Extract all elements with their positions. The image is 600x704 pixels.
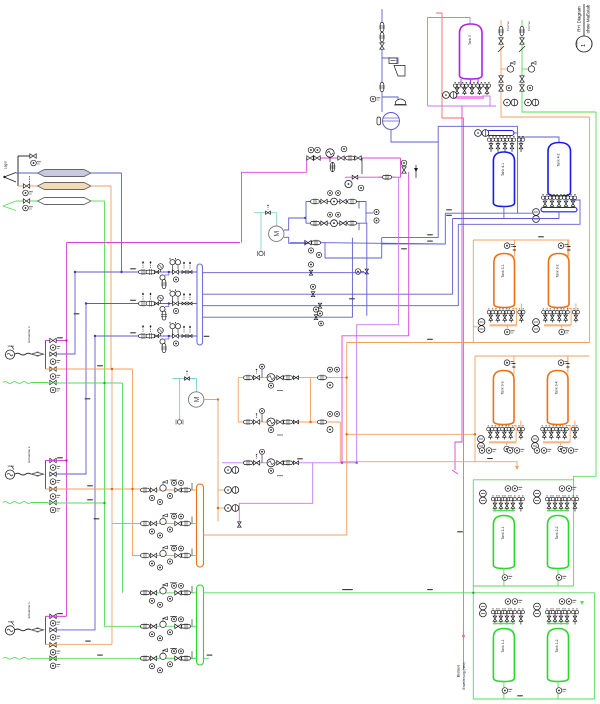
valve Entnahme 2 g — [50, 500, 56, 504]
instrument Tank 1-2 top2 — [566, 599, 576, 605]
wire orange header row1 — [140, 489, 197, 491]
valve group orange row1 — [244, 364, 299, 391]
valve manifold row1 cross — [173, 270, 179, 274]
wire blue under-tank run 3 — [458, 200, 580, 224]
wire green Entnahme 1 — [31, 657, 48, 659]
instrument grp2 b3b — [541, 448, 551, 454]
instrument out3b — [319, 321, 324, 326]
valve unit purple tank u2 — [461, 82, 468, 95]
wire orange M2 out — [204, 400, 218, 522]
instrument grp2 b2b — [514, 448, 524, 454]
wire green filter out — [91, 200, 105, 202]
node junction orange hdr — [217, 507, 219, 509]
svg-text:Tank 0: Tank 0 — [468, 35, 472, 45]
instrument blue FIC — [374, 218, 379, 223]
instrument Tank 1-2 bottom — [556, 688, 566, 694]
manifold bar Tank 3-2 — [544, 324, 571, 326]
wire green grp1 bottom — [473, 585, 573, 587]
wire orange cross link — [347, 342, 590, 344]
wire blue M1 out2 — [284, 237, 310, 243]
instrument grp2 b4 — [561, 448, 567, 454]
pump orange col P — [504, 99, 518, 106]
wire orange Tank 3-2 u5 feed — [575, 304, 577, 311]
valve unit blue tank2 u2 — [548, 194, 555, 209]
vessel Tank 1-2 — [548, 629, 569, 682]
pump Tank 1-2 — [534, 603, 541, 617]
svg-text:Tank 1-2: Tank 1-2 — [555, 639, 559, 652]
node junction manifold row3 — [168, 335, 170, 337]
valve unit Tank 1-1 u3 — [503, 609, 510, 625]
instrument out2 — [317, 311, 322, 316]
valve orange col ECO — [498, 27, 504, 36]
wire orange crow right — [310, 378, 312, 422]
wire orange Tank 3-2 side — [569, 309, 571, 326]
wire magenta stub ECO — [378, 176, 395, 178]
wire green riser x=104.5 lower — [105, 383, 141, 626]
wire Entnahme 1 pump squiggle — [15, 629, 31, 631]
wire cyan M1 drop — [276, 213, 278, 226]
wire magenta loop bottom — [345, 158, 401, 177]
instrument magenta TI1 — [308, 147, 314, 153]
wire magenta Entnahme 1 — [46, 615, 67, 617]
wire magenta E2 tap — [46, 460, 67, 462]
valve group purple row — [244, 449, 299, 476]
wire green Entnahme 1 squiggle — [3, 657, 31, 659]
wire orange grp1 pump stub — [473, 326, 477, 328]
wire magenta E1 tap — [46, 615, 67, 617]
wire orange E1 — [46, 643, 113, 645]
wire blue row B — [306, 222, 366, 224]
manifold bar Tank 2-2 — [547, 510, 569, 512]
manifold blue tank2 header — [541, 208, 577, 212]
wire orange from Lager — [18, 185, 38, 187]
valve unit Tank 3-1 u1 — [487, 309, 494, 323]
valve blue rowA ECO2 — [348, 199, 357, 205]
wire orange Tank 3-4 topdrop — [567, 356, 569, 373]
pump Tank 3-4 — [532, 436, 539, 450]
svg-text:Entnahme 2: Entnahme 2 — [27, 446, 31, 463]
wire orange col cv stub — [501, 68, 507, 70]
pump blue tank2 P2 — [533, 209, 540, 223]
pump purple row — [225, 467, 239, 474]
node junction orange E2b — [131, 488, 133, 490]
valve green V3 — [23, 199, 29, 203]
node junction M2 out — [217, 398, 219, 400]
valve out2 — [318, 303, 322, 308]
wire purple drop3 — [239, 463, 312, 522]
valve unit Tank 3-1 u4 — [508, 309, 515, 323]
instrument magenta PI5 — [358, 185, 364, 191]
valve unit Tank 2-1 u3 — [503, 496, 510, 512]
vessel Tank 3-3 — [493, 371, 514, 425]
wire green col cv stub — [522, 68, 528, 70]
instrument out3 — [313, 307, 318, 312]
valve group green header row1 — [141, 583, 193, 608]
svg-text:Entnahme 1: Entnahme 1 — [27, 602, 31, 619]
valve blue rowA V1 — [321, 199, 327, 203]
valve magenta V4 — [355, 156, 361, 160]
instrument blue rowA PI — [328, 191, 333, 196]
valve blue rowA ECO1 — [311, 199, 320, 205]
valve unit Tank 3-1 u5 — [518, 309, 525, 323]
wire orange Tank 3-1 bottomdrop — [506, 325, 508, 328]
pump Entnahme 2 feed — [5, 466, 14, 480]
wire blue tank2 feed — [487, 125, 518, 127]
wire blue filter out — [91, 172, 122, 174]
node Tank 3-2 nozzle marks — [567, 249, 570, 251]
station Entnahme 3 — [45, 341, 47, 370]
valve utility ECO2 — [379, 33, 385, 42]
pump Entnahme 1 feed — [5, 621, 14, 635]
filter F2 (orange line) — [38, 183, 92, 190]
wire blue riser E3 — [56, 272, 75, 354]
instrument grp2 b1 — [479, 448, 485, 454]
valve blue rowB V2 — [340, 221, 346, 225]
manifold bar Tank 3-3 — [489, 441, 516, 443]
node feed arrow blue — [3, 173, 16, 183]
pump M1 motor — [269, 226, 284, 241]
vessel Tank 3-4 — [547, 371, 568, 425]
valve magenta V2 — [314, 156, 320, 160]
wire blue corridor riser A — [382, 126, 439, 237]
wire blue riser x=517.6 — [517, 126, 519, 213]
wire orange riser x=111 — [110, 186, 112, 369]
wire blue to dome — [382, 97, 398, 99]
wire orange header row2 — [140, 523, 197, 525]
valve group green header row3 — [141, 648, 193, 673]
instrument Tank 3-2 bottom — [559, 329, 569, 335]
wire cyan M2 top — [173, 378, 197, 380]
instrument Tank 2-1 top2 — [512, 486, 522, 492]
wire blue riser E1 — [56, 336, 95, 630]
valve Entnahme 1 o — [50, 643, 56, 647]
pump manifold row1 HX — [158, 264, 164, 270]
instrument Tank 2-2 bottom — [556, 575, 566, 581]
valve unit blue tank1 u2 — [494, 136, 501, 152]
valve Entnahme 2 o — [50, 487, 56, 491]
node junction orange b434 — [474, 433, 476, 435]
valve green col cross — [520, 85, 524, 91]
wire blue corridor riser B — [382, 213, 446, 244]
instrument Entnahme 1 m — [50, 621, 60, 627]
filter Entnahme 3 strainer — [32, 352, 44, 356]
wire orange header row3 — [140, 555, 197, 557]
valve unit Tank 1-2 u4 — [563, 609, 570, 625]
wire blue row B down — [365, 223, 368, 316]
valve group orange header row2 — [141, 514, 193, 539]
wire blue corridor riser D — [203, 224, 459, 305]
instrument Entnahme 2 o — [50, 494, 60, 500]
manifold blue header M1 — [197, 264, 203, 345]
instrument M1 return — [258, 251, 265, 256]
valve magenta V3 — [338, 156, 344, 160]
node red boundary dot — [462, 635, 465, 638]
wire green grp1 right — [573, 480, 575, 586]
pump purple P0 — [443, 92, 457, 99]
instrument Entnahme 2 m — [50, 465, 60, 471]
vessel Tank 2-2 — [548, 516, 569, 569]
valve group manifold row2 — [139, 290, 193, 321]
valve purple drop — [237, 522, 241, 527]
pump transfer P3b — [225, 505, 239, 512]
wire Entnahme 3 pump squiggle — [15, 353, 31, 355]
wire orange V riser x=346.7 — [346, 343, 348, 536]
node Tank 3-1 nozzle marks — [513, 249, 516, 251]
wire green Entnahme 2 — [31, 502, 48, 504]
wire green Entnahme 2 squiggle — [3, 502, 31, 504]
instrument grp2 b1b — [486, 448, 496, 454]
wire orange Tank 3-3 side — [514, 426, 516, 443]
instrument green PI3 — [23, 205, 33, 211]
node junction green E2 — [103, 502, 105, 504]
wire blue manifold row1 — [75, 271, 197, 273]
valve unit Tank 2-2 u4 — [563, 496, 570, 512]
node junction manifold row2 — [168, 302, 170, 304]
node junction blue M1 — [304, 242, 306, 244]
pump Tank 2-2 — [534, 490, 541, 504]
valve green col V — [520, 38, 524, 44]
wire orange crow1 — [238, 377, 347, 379]
valve unit Tank 1-2 u3 — [557, 609, 564, 625]
svg-text:Tank 4-1: Tank 4-1 — [501, 163, 505, 176]
svg-text:Stand: Stand — [591, 40, 594, 47]
manifold blue tank1 header — [487, 131, 514, 136]
wire orange grp2 left — [474, 356, 476, 462]
node junction orange y434 — [346, 433, 348, 435]
instrument Tank 3-4 LI — [558, 360, 568, 366]
instrument blue rowB PI — [328, 212, 333, 217]
svg-text:Tank 3-1: Tank 3-1 — [501, 264, 505, 277]
node feed arrow green — [3, 201, 16, 211]
control valve orange header r2 — [160, 514, 168, 525]
wire orange far-right riser — [589, 117, 591, 343]
wire black feed top — [18, 155, 30, 157]
instrument grp2 b3 — [534, 448, 540, 454]
svg-text:Erweiterung (neu): Erweiterung (neu) — [462, 663, 466, 690]
instrument grp2 b4b — [568, 448, 578, 454]
wire black feed drop — [17, 156, 19, 186]
pump Tank 3-3 — [478, 436, 485, 450]
valve unit Tank 2-1 u4 — [509, 496, 516, 512]
wire orange Tank 3-4 bottomdrop — [560, 442, 562, 445]
wire green Entnahme 3 — [31, 382, 48, 384]
wire orange Tank 3-3 topdrop — [513, 356, 515, 373]
wire green grp2 bottom — [473, 698, 594, 700]
instrument Tank 3-3 LI — [504, 360, 514, 366]
svg-text:Frischw.: Frischw. — [506, 21, 510, 32]
wire orange Tank 3-2 bottomdrop — [561, 325, 563, 328]
wire blue riser to manifold row1 — [121, 173, 123, 272]
wire orange Tank 3-1 u5 feed — [520, 304, 522, 311]
wire violet riser x=427.5 — [427, 18, 429, 107]
pump Tank 3-1 — [478, 319, 485, 333]
valve unit Tank 1-1 u4 — [509, 609, 516, 625]
wire violet under purple tank — [428, 105, 497, 107]
wire orange row2 ext — [340, 422, 517, 466]
valve unit blue tank2 u1 — [541, 194, 548, 209]
instrument Tank 2-2 top2 — [566, 486, 576, 492]
wire blue M1 out1 — [284, 218, 305, 230]
valve blue rowB V1 — [321, 221, 327, 225]
instrument Tank 1-1 bottom — [502, 688, 512, 694]
wire blue tank2 top stub — [518, 137, 559, 143]
wire green E2 — [48, 502, 105, 504]
valve unit Tank 3-3 u2 — [494, 426, 501, 440]
instrument Entnahme 1 g — [50, 663, 60, 669]
node green arrow stub grp2 — [580, 601, 584, 605]
node junction green main — [472, 592, 474, 594]
wire red boundary upper — [436, 13, 464, 670]
pump M2 motor — [189, 392, 204, 407]
valve unit Tank 2-1 u5 — [517, 496, 524, 512]
wire green stub — [204, 657, 210, 659]
wire green E1 long — [48, 657, 197, 659]
wire green utility column — [521, 20, 523, 108]
valve unit Tank 3-3 u3 — [501, 426, 508, 440]
valve unit Tank 3-4 u2 — [548, 426, 555, 440]
wire orange Tank 3-2 topdrop — [568, 239, 570, 256]
pump magenta circulation — [345, 180, 352, 187]
instrument out0 — [308, 262, 313, 267]
pump Tank 1-1 — [480, 603, 487, 617]
valve out0 — [309, 270, 313, 275]
wire violet riser x=241.5 — [242, 172, 307, 242]
valve Entnahme 1 b — [50, 628, 56, 632]
valve utility ECO3 — [379, 83, 385, 92]
valve blue low V1 — [305, 240, 311, 244]
pump Entnahme 3 feed — [5, 346, 14, 360]
node junction orange E2a — [111, 488, 113, 490]
valve orange col V2 — [499, 76, 503, 82]
valve unit Tank 2-2 u2 — [551, 496, 558, 512]
valve unit Tank 3-4 u1 — [541, 426, 548, 440]
pump blower B1 — [377, 113, 400, 130]
instrument blue FI — [374, 209, 379, 214]
instrument Tank 2-2 top — [559, 486, 565, 492]
valve orange col slash — [498, 46, 504, 52]
pump Tank 2-1 — [480, 490, 487, 504]
instrument Entnahme 2 b — [50, 479, 60, 485]
node junction blue capsule1 — [120, 271, 122, 273]
valve blue corridor — [365, 269, 368, 274]
node junction orange E3 — [111, 368, 113, 370]
valve group green header row2 — [141, 616, 193, 641]
node dashed marks — [29, 176, 31, 183]
wire purple center row — [222, 462, 357, 464]
svg-text:Tank 2-2: Tank 2-2 — [555, 526, 559, 539]
valve unit purple tank u3 — [468, 82, 475, 95]
pump manifold row3 HX — [158, 328, 164, 334]
wire orange crow2 — [238, 421, 340, 423]
instrument Entnahme 3 m — [50, 345, 60, 351]
station Entnahme 2 — [45, 461, 47, 490]
node junction magenta E3 — [65, 339, 67, 341]
valve unit Tank 3-1 u2 — [494, 309, 501, 323]
valve Entnahme 3 o — [50, 367, 56, 371]
wire orange header out — [204, 534, 347, 536]
wire green main out — [204, 592, 595, 594]
valve magenta ECOv — [330, 163, 336, 172]
wire blue manifold row2 — [86, 303, 197, 305]
wire green riser x=104.5 upper — [104, 201, 106, 383]
valve unit Tank 2-1 u2 — [497, 496, 504, 512]
wire green header row2 — [140, 625, 197, 627]
valve Entnahme 3 b — [50, 352, 56, 356]
svg-text:Lager: Lager — [4, 160, 8, 169]
instrument magenta TI2 — [341, 146, 347, 152]
valve unit purple tank u5 — [483, 82, 490, 95]
wire green grp1 rightup — [567, 476, 596, 480]
pump blue rowB — [331, 220, 338, 227]
wire blue from Lager — [16, 172, 38, 174]
svg-text:Entnahme 3: Entnahme 3 — [27, 326, 31, 343]
wire blue utility branch — [382, 58, 398, 64]
node junction blue rowsB — [85, 302, 87, 304]
valve green col slash — [519, 46, 525, 52]
valve unit Tank 1-1 u1 — [491, 609, 498, 625]
valve unit Tank 2-2 u5 — [571, 496, 578, 512]
instrument Tank 2-1 top — [505, 486, 511, 492]
valve out3 — [314, 315, 318, 320]
svg-text:Tank 3-2: Tank 3-2 — [556, 264, 560, 277]
valve unit Tank 3-4 u3 — [555, 426, 562, 440]
valve utility ECO1 — [379, 23, 385, 32]
valve unit blue tank1 u5 — [517, 136, 524, 152]
wire orange Tank 3-1 topdrop — [513, 239, 515, 256]
instrument orange PI2 — [23, 190, 33, 196]
wire orange grp2 right — [567, 356, 569, 371]
valve unit Tank 1-2 u2 — [551, 609, 558, 625]
instrument Entnahme 3 o — [50, 374, 60, 380]
valve unit blue tank2 u5 — [569, 194, 576, 209]
instrument out1 — [310, 284, 315, 289]
svg-text:M: M — [194, 396, 201, 402]
valve group orange header row3 — [141, 546, 193, 571]
wire blue manifold out3 — [203, 238, 353, 318]
node magenta end arrow — [452, 470, 458, 474]
wire blue lower H — [290, 243, 382, 258]
wire orange E2 — [46, 488, 141, 490]
valve unit blue tank1 u4 — [508, 136, 515, 152]
pump manifold row2 HX — [158, 295, 164, 301]
svg-text:Frischw.: Frischw. — [527, 21, 531, 32]
svg-text:Tank 2-1: Tank 2-1 — [501, 526, 505, 539]
valve unit Tank 1-1 u2 — [497, 609, 504, 625]
wire green E3 — [48, 382, 123, 384]
node junction violet row2 — [341, 462, 343, 464]
valve top-left V1 — [30, 154, 36, 158]
filter F3 (green line) — [38, 198, 92, 205]
valve blue rowB drop — [358, 223, 360, 230]
wire orange grp1 right — [567, 240, 569, 313]
wire blue utility column — [381, 9, 383, 112]
manifold green header M3 — [197, 585, 204, 665]
wire magenta top link — [67, 242, 241, 244]
instrument M2 return — [176, 420, 183, 425]
wire purple stub right — [482, 96, 490, 106]
station Entnahme 1 — [45, 616, 47, 645]
wire orange grp1 left — [472, 240, 474, 330]
node orange arrow stub — [515, 466, 519, 470]
wire orange Tank 3-3 u5 feed — [520, 421, 522, 428]
wire blue tank1 bottom drop — [503, 207, 505, 219]
svg-text:ohne Maßstab: ohne Maßstab — [586, 4, 591, 33]
wire magenta long riser x=462 — [455, 106, 462, 470]
instrument Entnahme 1 b — [50, 635, 60, 641]
instrument Tank 3-1 bottom — [504, 329, 514, 335]
node junction orange row2 — [309, 421, 311, 423]
wire cyan M2 return — [179, 379, 181, 421]
